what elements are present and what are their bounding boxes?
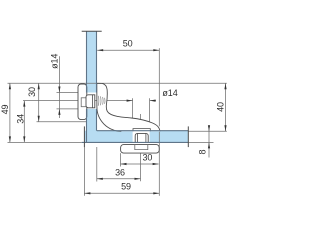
ref line bottom of 30 left <box>37 121 87 123</box>
40 dim arrows <box>224 83 226 89</box>
centerline bottom screw lower / 36 ext <box>140 145 142 181</box>
svg-text:59: 59 <box>121 182 131 192</box>
dim line 34 <box>23 101 25 143</box>
svg-text:8: 8 <box>198 149 208 154</box>
svg-text:50: 50 <box>123 39 133 49</box>
svg-text:40: 40 <box>216 102 226 112</box>
bottom reference line y=142.4 left <box>8 141 82 143</box>
dim line 50 <box>97 49 159 51</box>
ext line dia14 left bottom <box>57 108 79 110</box>
bottom reference line y=142.4 right <box>188 141 213 143</box>
top reference line y=83.2 <box>8 82 227 84</box>
dim line 8 <box>208 125 210 157</box>
bottom clamp pad <box>121 145 160 154</box>
ext line dia14 left top <box>57 92 79 94</box>
top screw inner line <box>92 95 94 108</box>
bottom screw inner lines <box>137 134 139 143</box>
ext line 30 bottom left <box>120 153 122 166</box>
extension line x=159.3 lower <box>158 132 160 196</box>
horizontal glass bottom edge <box>82 141 189 143</box>
hole in vertical glass <box>85 93 97 109</box>
glass edge lines <box>82 31 189 142</box>
59 dim arrows <box>84 192 90 194</box>
ref line y=131.2 right <box>188 130 227 132</box>
top screw boss <box>86 95 95 108</box>
bottom screw <box>135 133 148 142</box>
50 dim arrows <box>97 49 103 51</box>
hole centerline y=100.6 right part <box>150 100 156 102</box>
arrows <box>9 49 227 194</box>
30 left dim arrows <box>38 83 40 89</box>
30 bottom dim arrows <box>121 163 127 165</box>
svg-text:ø14: ø14 <box>49 54 59 69</box>
dim line 30 bottom <box>121 163 159 165</box>
dia14 right outside arrows <box>127 100 133 102</box>
svg-text:30: 30 <box>142 152 152 162</box>
vertical glass panel <box>86 31 97 142</box>
horizontal glass top edge <box>97 130 189 132</box>
49 dim arrows <box>9 83 11 89</box>
dim line 59 <box>84 192 159 194</box>
horizontal glass panel <box>84 131 188 143</box>
left cut line of horizontal glass <box>83 126 85 147</box>
ext line dia14 right right <box>149 98 151 123</box>
hole in horizontal glass <box>133 130 150 143</box>
extension line x=159.3 upper <box>158 48 160 126</box>
dia14 left outside arrows <box>58 87 60 93</box>
right cut line of horizontal glass <box>187 126 189 147</box>
hole centerline y=100.6 left part <box>23 100 133 102</box>
foot boss on bottom glass <box>133 129 150 132</box>
svg-text:ø14: ø14 <box>162 88 177 98</box>
8 dim outside arrows <box>208 125 210 131</box>
dim line dia14 left <box>58 56 60 118</box>
ext line 59 left <box>83 147 85 196</box>
34 dim arrows <box>23 101 25 107</box>
svg-text:36: 36 <box>115 167 125 177</box>
ext line dia14 right left <box>132 98 134 119</box>
vertical glass right edge <box>96 31 98 92</box>
svg-text:30: 30 <box>27 87 37 97</box>
bracket body U1 <box>97 83 160 131</box>
dim line 49 <box>9 83 11 142</box>
top screw thread in pad <box>81 98 86 107</box>
hidden thread arcs right of glass <box>98 96 105 106</box>
top cut line of vertical glass <box>82 30 102 32</box>
svg-text:49: 49 <box>0 105 10 115</box>
centerline bottom screw upper <box>140 114 142 122</box>
vertical glass left edge <box>86 31 88 92</box>
top clamp pad <box>78 84 87 120</box>
dim line 36 <box>97 178 141 180</box>
dim line 30 left <box>38 83 40 122</box>
svg-text:34: 34 <box>16 114 26 124</box>
36 dim arrows <box>97 178 103 180</box>
ext line 36 left <box>96 147 98 182</box>
dim line 40 <box>225 83 227 131</box>
